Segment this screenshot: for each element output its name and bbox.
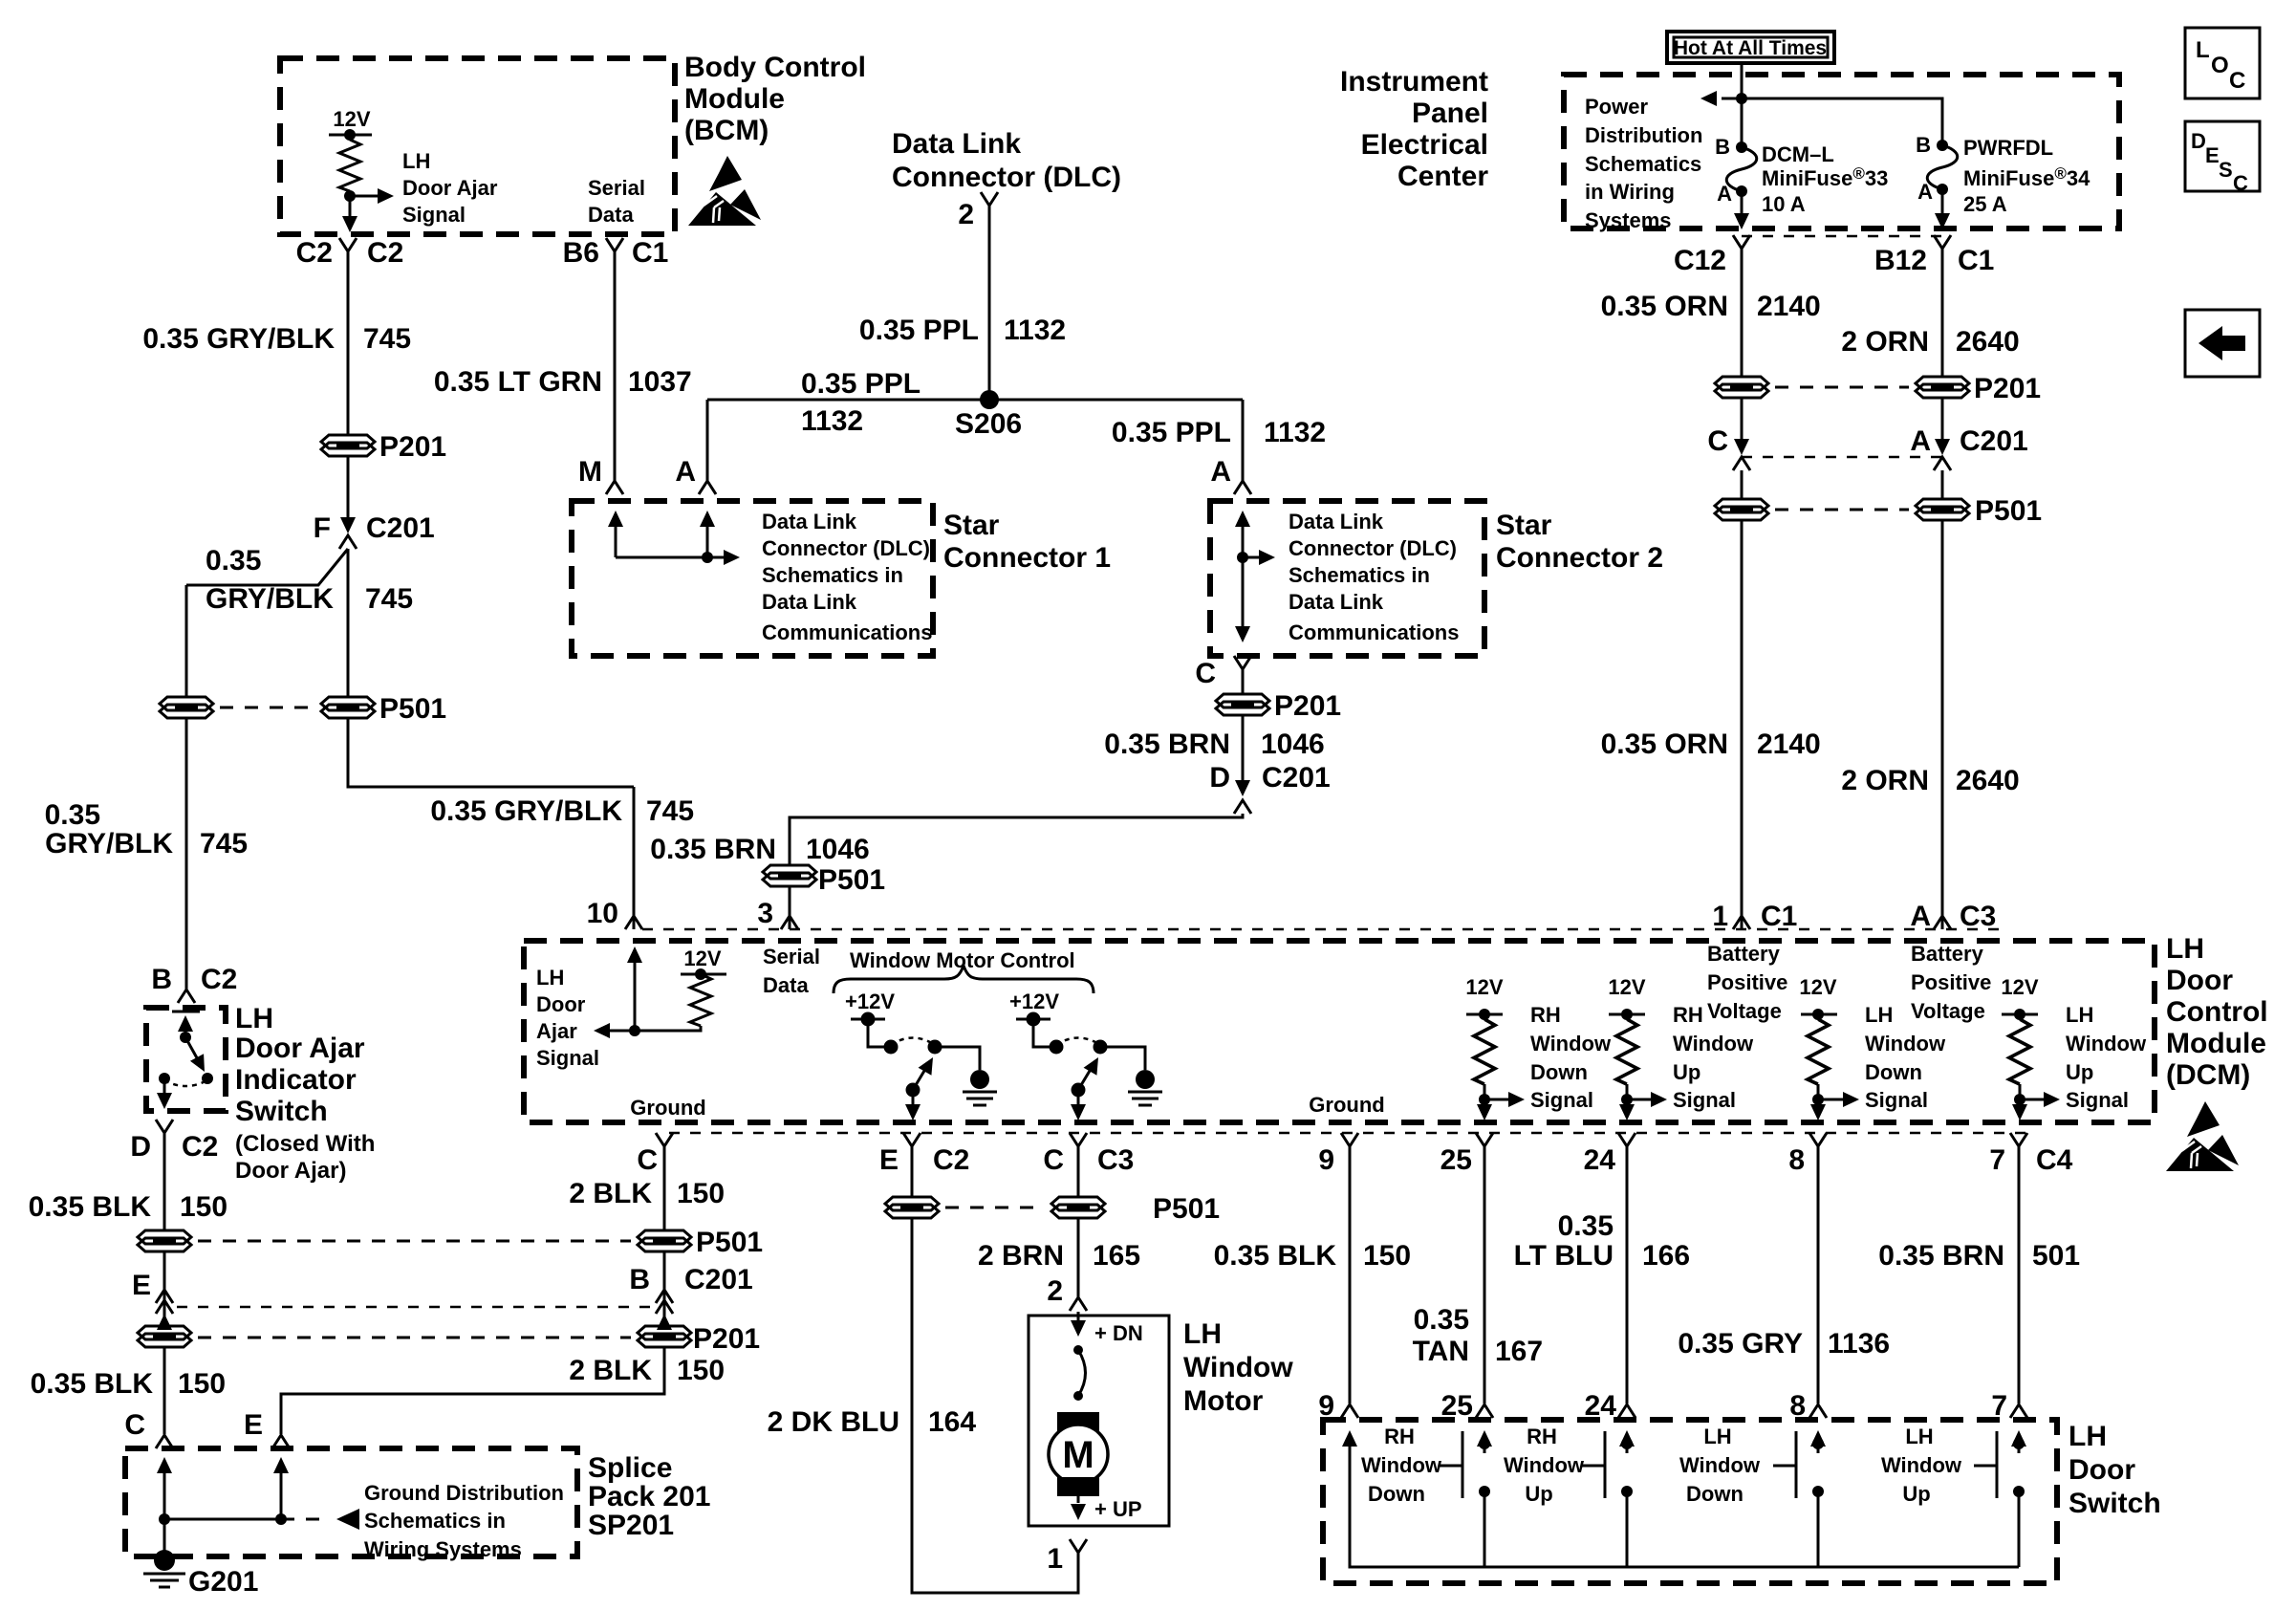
svg-text:C2: C2	[201, 964, 237, 995]
resistor elbow to junction	[635, 1026, 701, 1031]
LH Door Ajar Signal arrow	[350, 195, 380, 198]
wire 2640 to P501	[1941, 470, 1944, 499]
svg-text:LH: LH	[536, 966, 564, 990]
svg-text:Schematics in: Schematics in	[762, 563, 903, 587]
svg-text:A: A	[675, 456, 696, 488]
svg-text:Down: Down	[1865, 1060, 1922, 1084]
svg-text:10: 10	[587, 898, 618, 929]
svg-text:1132: 1132	[801, 405, 863, 437]
door ajar switch entry fork	[178, 990, 195, 1003]
wire 2640 to C201	[1941, 398, 1944, 440]
wire between P501 and C201 (right)	[663, 1251, 666, 1326]
junction dot 12V	[344, 129, 356, 141]
connector P501 pair (motor wires)	[885, 1197, 939, 1218]
svg-text:Window: Window	[1183, 1352, 1293, 1383]
motor feed arrow	[1077, 1312, 1080, 1321]
DCM pin C fork (ground out)	[656, 1133, 673, 1146]
svg-text:0.35 GRY/BLK: 0.35 GRY/BLK	[142, 323, 335, 355]
svg-text:Signal: Signal	[402, 203, 466, 227]
svg-text:2640: 2640	[1956, 326, 2020, 358]
switch2 arm	[1078, 1066, 1093, 1090]
wire 2140 to DCM	[1741, 520, 1744, 929]
svg-text:Window: Window	[2066, 1032, 2147, 1055]
wire 1132 DLC down	[988, 206, 991, 400]
svg-text:Schematics in: Schematics in	[1289, 563, 1430, 587]
12V bar switch 2	[1016, 1018, 1051, 1021]
C201 boundary dashed (ground path)	[177, 1306, 650, 1309]
svg-text:24: 24	[1584, 1144, 1616, 1176]
svg-text:A: A	[1917, 180, 1933, 204]
svg-text:25 A: 25 A	[1963, 192, 2007, 216]
svg-text:Door: Door	[2069, 1454, 2135, 1486]
svg-text:0.35: 0.35	[1414, 1304, 1469, 1336]
svg-text:Data: Data	[588, 203, 634, 227]
svg-text:0.35 BLK: 0.35 BLK	[1214, 1240, 1337, 1272]
svg-text:P501: P501	[1153, 1193, 1220, 1225]
svg-text:1046: 1046	[1261, 729, 1325, 760]
switch LH Window Up	[1881, 1425, 2026, 1567]
wire 745 to C201	[347, 456, 350, 517]
svg-text:Switch: Switch	[235, 1096, 328, 1127]
svg-text:C: C	[2229, 68, 2245, 94]
wire 150 from switch	[163, 1133, 166, 1230]
svg-text:LH: LH	[402, 149, 430, 173]
svg-text:P501: P501	[379, 693, 446, 725]
svg-text:LH: LH	[2166, 933, 2204, 965]
svg-text:C1: C1	[632, 237, 668, 269]
IPEC box	[1564, 75, 2119, 228]
svg-text:(BCM): (BCM)	[684, 115, 769, 146]
svg-text:Down: Down	[1368, 1482, 1425, 1506]
svg-text:B: B	[1715, 135, 1730, 159]
svg-text:+12V: +12V	[845, 990, 895, 1013]
svg-text:GRY/BLK: GRY/BLK	[206, 583, 334, 615]
svg-text:0.35 BLK: 0.35 BLK	[29, 1191, 152, 1223]
BCM pin B6/C1 fork	[606, 238, 623, 251]
svg-text:Serial: Serial	[763, 945, 820, 968]
splice S206	[980, 390, 999, 409]
wire 167 from DCM pin 25	[1484, 1146, 1486, 1403]
svg-text:LT BLU: LT BLU	[1514, 1240, 1614, 1272]
svg-text:Wiring Systems: Wiring Systems	[364, 1537, 522, 1561]
switch2 wiper to pin C	[1077, 1090, 1080, 1105]
svg-text:C: C	[1043, 1144, 1064, 1176]
svg-text:Splice: Splice	[588, 1452, 672, 1484]
svg-text:LH: LH	[235, 1003, 273, 1034]
svg-text:0.35 PPL: 0.35 PPL	[801, 368, 921, 400]
svg-text:C: C	[1195, 658, 1216, 689]
branch wire 745 down-left	[185, 585, 188, 697]
svg-text:TAN: TAN	[1413, 1336, 1469, 1367]
switch2 output to ground	[1100, 1047, 1145, 1070]
svg-text:D: D	[1209, 762, 1230, 794]
ground G201 symbol	[154, 1550, 175, 1571]
svg-text:S206: S206	[955, 408, 1022, 440]
svg-text:0.35 GRY/BLK: 0.35 GRY/BLK	[430, 795, 622, 827]
svg-text:P201: P201	[1974, 373, 2041, 404]
DCM pin 25 fork	[1476, 1133, 1493, 1146]
splice pointer triangle	[336, 1509, 359, 1530]
svg-text:8: 8	[1788, 1144, 1805, 1176]
svg-text:G201: G201	[188, 1566, 258, 1598]
Splice Pack 201 box	[125, 1448, 577, 1556]
svg-text:Data Link: Data Link	[1289, 590, 1384, 614]
svg-text:0.35 BRN: 0.35 BRN	[1104, 729, 1230, 760]
door switch pin 24 fork	[1618, 1404, 1635, 1418]
switch RH Window Down	[1361, 1425, 1492, 1567]
svg-text:150: 150	[178, 1368, 226, 1400]
svg-text:2 BRN: 2 BRN	[978, 1240, 1064, 1272]
Body Control Module box	[280, 58, 675, 234]
svg-text:Door: Door	[2166, 965, 2233, 996]
junction dot feed	[1736, 93, 1747, 104]
svg-text:in Wiring: in Wiring	[1585, 180, 1675, 204]
DCM door ajar input arrow	[634, 950, 637, 1031]
svg-text:0.35 LT GRN: 0.35 LT GRN	[434, 366, 602, 398]
Hot At All Times box	[1667, 32, 1834, 63]
DLC pin 2 fork	[981, 192, 998, 206]
svg-text:Data: Data	[763, 973, 809, 997]
DCM connector boundary dashed (top)	[642, 928, 2007, 931]
svg-text:Panel: Panel	[1412, 98, 1488, 129]
svg-text:LH: LH	[1183, 1318, 1222, 1350]
DCM pin A fork	[1934, 916, 1951, 929]
svg-text:10 A: 10 A	[1762, 192, 1806, 216]
svg-text:2 ORN: 2 ORN	[1841, 326, 1929, 358]
connector P201 on 1046	[1216, 694, 1269, 715]
connector P201 on wire 745	[321, 435, 375, 456]
wire 150 between connectors (left)	[163, 1251, 166, 1326]
wire 1132 down to Star Connector 2 pin A	[1242, 400, 1245, 481]
svg-text:(DCM): (DCM)	[2166, 1059, 2250, 1091]
svg-text:Door Ajar): Door Ajar)	[235, 1158, 346, 1184]
SC2 pin C fork	[1234, 656, 1251, 669]
svg-text:RH: RH	[1384, 1425, 1415, 1448]
svg-text:Up: Up	[1673, 1060, 1700, 1084]
svg-text:12V: 12V	[2001, 975, 2038, 999]
svg-text:166: 166	[1642, 1240, 1690, 1272]
svg-text:7: 7	[1989, 1144, 2005, 1176]
svg-text:C3: C3	[1097, 1144, 1134, 1176]
C201 chevron left	[1733, 457, 1750, 470]
svg-text:C201: C201	[1960, 425, 2028, 457]
wire resistor to node	[349, 191, 352, 196]
switch arm up arrow	[184, 1019, 187, 1037]
svg-text:D: D	[2191, 129, 2206, 153]
svg-text:745: 745	[200, 828, 248, 859]
svg-text:0.35: 0.35	[45, 799, 100, 831]
svg-text:Window: Window	[1679, 1453, 1761, 1477]
svg-text:Window: Window	[1361, 1453, 1442, 1477]
svg-text:Down: Down	[1530, 1060, 1588, 1084]
svg-text:745: 745	[365, 583, 413, 615]
splice pack entry fork C	[156, 1435, 173, 1448]
svg-text:Connector (DLC): Connector (DLC)	[892, 162, 1121, 193]
SC2 internal wire	[1242, 514, 1245, 639]
switch output arrow	[163, 1078, 166, 1103]
serial data bus horizontal	[707, 399, 1243, 402]
svg-text:C2: C2	[933, 1144, 969, 1176]
svg-text:745: 745	[646, 795, 694, 827]
svg-text:S: S	[2219, 158, 2233, 182]
motor output wire	[1077, 1496, 1080, 1503]
DCM pin 8 fork	[1809, 1133, 1827, 1146]
svg-text:1: 1	[1047, 1543, 1063, 1575]
svg-text:Battery: Battery	[1707, 942, 1781, 966]
connector P501 pair (150 wire)	[138, 1230, 191, 1251]
svg-text:C2: C2	[296, 237, 333, 269]
svg-text:Ground Distribution: Ground Distribution	[364, 1481, 564, 1505]
wire 164 down	[912, 1218, 1078, 1593]
svg-text:Connector (DLC): Connector (DLC)	[1289, 536, 1457, 560]
wire 1046 to DCM pin 3	[789, 886, 791, 929]
svg-text:165: 165	[1093, 1240, 1140, 1272]
wire 2140 to P501	[1741, 470, 1744, 499]
wire node to BCM pin C2 with arrow	[349, 196, 352, 216]
svg-text:2 ORN: 2 ORN	[1841, 765, 1929, 796]
wire 1046 from SC2	[1242, 669, 1245, 694]
svg-text:1046: 1046	[806, 834, 870, 865]
svg-text:C2: C2	[367, 237, 403, 269]
wire 1046 to P501	[790, 814, 1243, 865]
svg-text:LH: LH	[1865, 1003, 1893, 1027]
svg-text:C: C	[637, 1144, 658, 1176]
svg-text:Connector 1: Connector 1	[943, 542, 1111, 574]
splice pointer dashed	[281, 1518, 330, 1521]
svg-text:Module: Module	[2166, 1028, 2266, 1059]
DCM pin C fork (C3)	[1070, 1133, 1087, 1146]
switch travel arc dashed	[164, 1080, 207, 1086]
svg-text:0.35 BRN: 0.35 BRN	[650, 834, 776, 865]
svg-text:LH: LH	[2069, 1421, 2107, 1452]
svg-text:A: A	[1910, 901, 1931, 932]
svg-text:Systems: Systems	[1585, 208, 1672, 232]
ground symbol switch1	[963, 1070, 997, 1105]
svg-text:A: A	[1717, 182, 1732, 206]
svg-text:2: 2	[1047, 1275, 1063, 1307]
svg-text:RH: RH	[1527, 1425, 1557, 1448]
12V rail bar	[329, 134, 372, 137]
svg-text:Door Ajar: Door Ajar	[402, 176, 498, 200]
svg-text:C: C	[2233, 171, 2248, 195]
switch arm diagonal	[185, 1037, 200, 1063]
resistor module LH Window Up	[2001, 975, 2147, 1120]
svg-text:GRY/BLK: GRY/BLK	[45, 828, 173, 859]
svg-text:1136: 1136	[1828, 1328, 1890, 1360]
svg-text:Down: Down	[1686, 1482, 1744, 1506]
resistor module RH Window Down	[1465, 975, 1612, 1120]
ground bus wire	[1350, 1434, 2019, 1567]
IPEC connector boundary dashed	[1742, 235, 1942, 238]
DCM ground wire 150 (2 BLK)	[663, 1146, 666, 1230]
switch1 contact arc dashed	[891, 1038, 935, 1046]
svg-text:Signal: Signal	[1530, 1088, 1593, 1112]
DCM pin E fork	[903, 1133, 921, 1146]
svg-text:Control: Control	[2166, 996, 2268, 1028]
C201 arrow left	[1734, 439, 1749, 455]
12V bar (DCM pull-up)	[681, 973, 726, 976]
svg-text:C12: C12	[1674, 245, 1726, 276]
svg-text:745: 745	[363, 323, 411, 355]
svg-text:C: C	[1707, 425, 1728, 457]
svg-text:C: C	[124, 1409, 145, 1441]
SC2 pointer arrow	[1243, 556, 1259, 559]
svg-text:Data Link: Data Link	[1289, 510, 1384, 533]
switch1 wiper to pin E	[912, 1090, 915, 1105]
door switch pin 9 fork	[1341, 1404, 1358, 1418]
DCM pin 3 fork	[781, 916, 798, 929]
svg-text:167: 167	[1495, 1336, 1543, 1367]
fuse output arrow 2	[1941, 189, 1944, 214]
svg-text:E: E	[2205, 143, 2220, 167]
SC1 pointer arrow	[707, 556, 724, 559]
svg-text:12V: 12V	[1608, 975, 1645, 999]
switch LH Window Down	[1679, 1425, 1826, 1567]
brush arc	[1078, 1350, 1086, 1396]
svg-text:B6: B6	[563, 237, 599, 269]
LH Window Motor box	[1029, 1316, 1169, 1526]
connector P501 pair (ORN wires)	[1715, 499, 1768, 520]
SC1 junction dot	[702, 552, 713, 563]
junction node below resistor	[344, 190, 356, 202]
wire 745 down to DCM pin 10	[633, 787, 636, 929]
svg-text:Power: Power	[1585, 95, 1648, 119]
wire serial data from BCM B6	[614, 251, 617, 481]
svg-text:C1: C1	[1761, 901, 1797, 932]
svg-text:Window: Window	[1530, 1032, 1612, 1055]
svg-text:Schematics: Schematics	[1585, 152, 1701, 176]
svg-text:12V: 12V	[1799, 975, 1836, 999]
svg-text:Distribution: Distribution	[1585, 123, 1702, 147]
switch2 feed elbow	[1033, 1019, 1056, 1047]
svg-text:Body Control: Body Control	[684, 52, 866, 83]
svg-text:C201: C201	[1262, 762, 1331, 794]
svg-text:150: 150	[180, 1191, 227, 1223]
splice internal arrow E	[280, 1461, 283, 1519]
LH Door Ajar Indicator Switch box	[146, 1008, 226, 1111]
DCM connector boundary dashed (bottom)	[669, 1132, 2036, 1135]
DCM pin 24 fork	[1618, 1133, 1635, 1146]
wire 2140 top	[1741, 249, 1744, 377]
svg-text:B: B	[629, 1264, 650, 1295]
C201 chevron right	[1934, 457, 1951, 470]
svg-text:B: B	[1916, 133, 1931, 157]
resistor (BCM LH door ajar pull-up)	[339, 140, 360, 191]
resistor module LH Window Down	[1799, 975, 1946, 1120]
svg-text:Data Link: Data Link	[892, 128, 1021, 160]
C201 chevron (D)	[1234, 800, 1251, 814]
svg-text:PWRFDL: PWRFDL	[1963, 136, 2053, 160]
svg-text:0.35 BLK: 0.35 BLK	[31, 1368, 154, 1400]
svg-text:Schematics in: Schematics in	[364, 1509, 506, 1533]
motor pin 2 fork	[1070, 1297, 1087, 1311]
DCM ESD symbol	[2166, 1101, 2239, 1171]
svg-text:C1: C1	[1958, 245, 1994, 276]
wire 165 to motor	[1077, 1218, 1080, 1297]
12V bar switch 1	[851, 1018, 885, 1021]
svg-text:P201: P201	[379, 431, 446, 463]
back arrow box	[2185, 310, 2260, 377]
DCM pin 7 fork	[2010, 1133, 2027, 1146]
pin A entry fork (SC1)	[699, 481, 716, 494]
wire 1046	[1242, 715, 1245, 780]
brace	[834, 966, 1094, 993]
svg-text:Window: Window	[1504, 1453, 1585, 1477]
switch contact dots	[159, 1073, 170, 1084]
switch1 output to ground	[935, 1047, 980, 1070]
feed wire from hot box	[1741, 63, 1744, 147]
svg-text:Up: Up	[1902, 1482, 1930, 1506]
wire 501 from DCM pin 7	[2018, 1146, 2021, 1403]
svg-text:Connector (DLC): Connector (DLC)	[762, 536, 930, 560]
svg-text:Serial: Serial	[588, 176, 645, 200]
svg-text:C201: C201	[684, 1264, 753, 1295]
svg-text:Ajar: Ajar	[536, 1019, 577, 1043]
splice internal arrow C	[163, 1461, 166, 1519]
svg-text:MiniFuse®33: MiniFuse®33	[1762, 164, 1888, 190]
svg-text:Up: Up	[1525, 1482, 1552, 1506]
svg-text:C3: C3	[1960, 901, 1996, 932]
svg-text:Battery: Battery	[1911, 942, 1984, 966]
svg-text:1: 1	[1712, 901, 1728, 932]
connector P501 pair	[160, 697, 213, 718]
C201 chevrons (left)	[156, 1290, 173, 1303]
svg-text:Pack 201: Pack 201	[588, 1481, 710, 1512]
fuse PWRFDL MiniFuse 34	[1937, 140, 1948, 151]
wire 745 continues down	[347, 549, 350, 697]
svg-text:Instrument: Instrument	[1340, 66, 1488, 98]
svg-text:LH: LH	[1703, 1425, 1731, 1448]
splice internal bus	[164, 1518, 281, 1521]
svg-text:P201: P201	[1274, 690, 1341, 722]
svg-text:LH: LH	[2066, 1003, 2093, 1027]
svg-text:P501: P501	[696, 1227, 763, 1258]
LH Door Switch box	[1323, 1420, 2057, 1583]
wire splice diagonal at C201	[186, 549, 348, 585]
door ajar left arrow	[610, 1030, 635, 1033]
ground bus entry arrow (pin 9)	[1349, 1434, 1352, 1453]
splice pack entry fork E	[272, 1435, 290, 1448]
svg-text:12V: 12V	[333, 107, 370, 131]
DESC box	[2185, 121, 2260, 195]
C201 pass-through arrow (D)	[1235, 780, 1250, 796]
DCM pin 9 fork	[1341, 1133, 1358, 1146]
svg-text:O: O	[2211, 53, 2229, 78]
svg-text:Ground: Ground	[1309, 1093, 1384, 1117]
svg-text:Communications: Communications	[1289, 620, 1459, 644]
svg-text:E: E	[132, 1270, 151, 1301]
svg-text:0.35: 0.35	[1558, 1210, 1614, 1242]
svg-text:P501: P501	[1975, 495, 2042, 527]
svg-text:150: 150	[1363, 1240, 1411, 1272]
motor brush contact bottom	[1073, 1391, 1083, 1401]
svg-text:+12V: +12V	[1009, 990, 1059, 1013]
svg-text:0.35 PPL: 0.35 PPL	[859, 315, 979, 346]
SC2 junction dot	[1237, 552, 1248, 563]
svg-text:C4: C4	[2036, 1144, 2073, 1176]
svg-text:M: M	[578, 456, 602, 488]
svg-text:Door: Door	[536, 992, 586, 1016]
svg-text:1132: 1132	[1264, 417, 1326, 448]
switch1 arm	[913, 1066, 927, 1090]
motor brush contact top	[1073, 1345, 1083, 1355]
wire 166 from DCM pin 24	[1626, 1146, 1629, 1403]
svg-text:Window: Window	[1673, 1032, 1754, 1055]
LH Door Control Module box	[524, 941, 2155, 1122]
svg-text:Door Ajar: Door Ajar	[235, 1033, 365, 1064]
C201 chevrons (right)	[656, 1290, 673, 1303]
wire 2140 to C201	[1741, 398, 1744, 440]
